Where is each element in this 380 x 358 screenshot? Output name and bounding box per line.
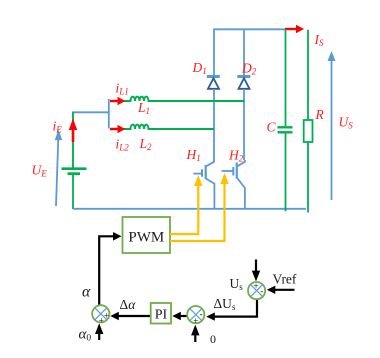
svg-text:-: -	[200, 309, 203, 319]
svg-text:Vref: Vref	[273, 272, 297, 287]
svg-text:-: -	[260, 286, 263, 296]
svg-text:0: 0	[210, 332, 216, 346]
svg-text:α: α	[82, 284, 91, 301]
svg-text:+: +	[104, 311, 109, 321]
svg-text:+: +	[193, 316, 198, 326]
svg-text:PWM: PWM	[128, 230, 164, 246]
svg-text:R: R	[315, 107, 325, 122]
svg-text:PI: PI	[155, 308, 168, 323]
svg-text:+: +	[254, 281, 259, 291]
svg-text:Δα: Δα	[120, 297, 137, 312]
svg-text:C: C	[267, 120, 277, 135]
